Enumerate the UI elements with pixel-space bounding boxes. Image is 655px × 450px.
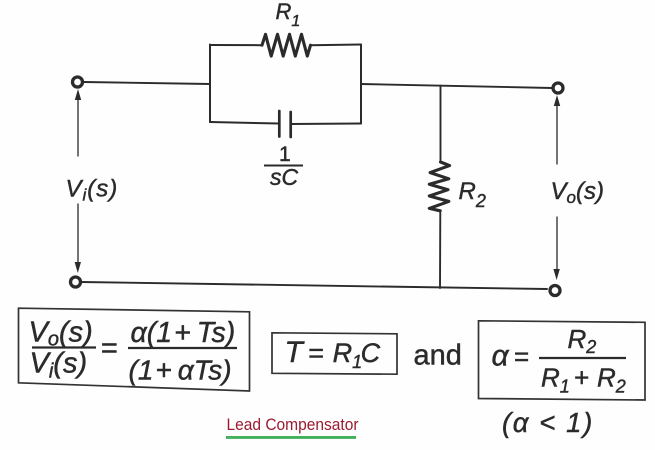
formula box 1: Vo(s)/Vi(s) = a(1+Ts)/(1+aTs) (19, 308, 250, 391)
label Vo(s) (551, 178, 604, 207)
wire: parallel network right vertical (360, 45, 362, 124)
svg-text:(α < 1): (α < 1) (502, 407, 594, 438)
resistor R2 (429, 162, 449, 211)
svg-text:(1+αTs): (1+αTs) (129, 355, 232, 386)
arrow: Vi up (77, 97, 79, 156)
svg-text:=: = (101, 333, 118, 365)
wire: top branch left segment (210, 44, 262, 46)
wire: parallel network to output terminal (361, 84, 552, 88)
formula box 3: a = R2/(R1+R2) (479, 321, 646, 400)
svg-text:sC: sC (270, 164, 299, 190)
label R1 (276, 0, 301, 30)
svg-text:α=: α= (492, 340, 529, 373)
wire: input top terminal to parallel network (84, 82, 210, 84)
arrow: Vi down (77, 204, 79, 264)
label Vi(s) (66, 176, 119, 205)
wire: parallel network left vertical (209, 45, 211, 123)
wire: R2 upper lead (440, 86, 442, 162)
label R2 (459, 178, 486, 211)
arrow: Vo up (556, 103, 558, 164)
svg-text:R2: R2 (459, 178, 486, 211)
wire: bottom rail (81, 282, 547, 289)
svg-text:T=R1C: T=R1C (285, 336, 381, 372)
svg-text:α(1+Ts): α(1+Ts) (131, 317, 236, 349)
svg-text:Vo(s): Vo(s) (551, 178, 604, 207)
svg-text:and: and (414, 340, 462, 372)
node: output top terminal (553, 83, 563, 93)
wire: top branch right segment (311, 44, 362, 47)
node: output bottom terminal (550, 286, 560, 296)
capacitor C right plate (289, 112, 292, 137)
svg-text:Vi(s): Vi(s) (30, 348, 88, 383)
label 1/sC (264, 143, 303, 190)
svg-text:Vo(s): Vo(s) (29, 317, 93, 351)
wire: bottom branch right segment (291, 123, 361, 126)
wire: R2 lower lead (439, 211, 441, 288)
arrow: Vo down (556, 217, 558, 270)
formula box 2: T = R1C (272, 333, 397, 374)
node: input bottom terminal (71, 277, 81, 287)
resistor R1 (262, 34, 311, 56)
caption underline (226, 436, 356, 439)
svg-text:R2: R2 (568, 324, 597, 357)
capacitor C left plate (278, 111, 281, 137)
svg-text:R1: R1 (276, 0, 301, 30)
svg-text:Lead Compensator: Lead Compensator (227, 415, 359, 434)
svg-text:R1+R2: R1+R2 (541, 363, 626, 397)
svg-text:Vi(s): Vi(s) (66, 176, 119, 205)
svg-text:1: 1 (279, 143, 291, 166)
node: input top terminal (73, 77, 83, 87)
wire: bottom branch left segment (210, 122, 279, 124)
